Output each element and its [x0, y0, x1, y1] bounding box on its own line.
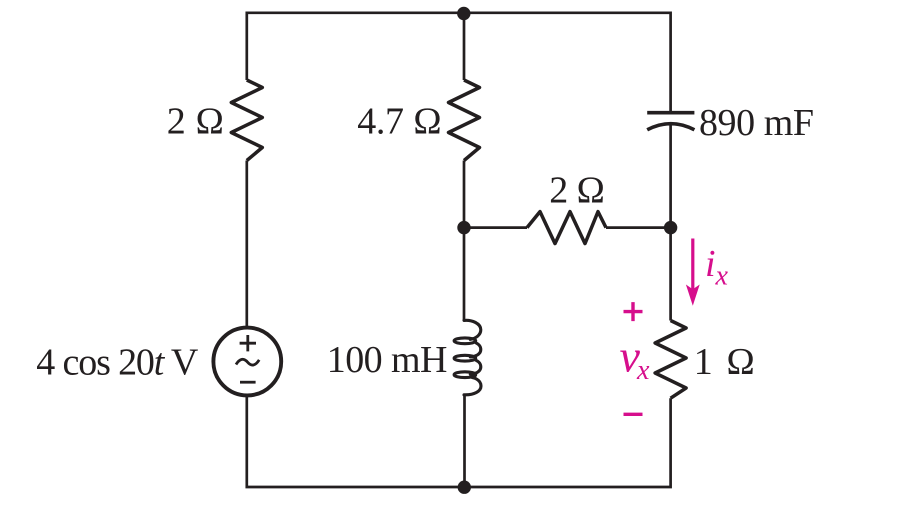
wire middle mid: [463, 161, 466, 321]
wire middle horizontal left: [464, 226, 527, 229]
wire middle upper: [463, 13, 466, 80]
svg-text:x: x: [636, 355, 650, 386]
svg-text:4.7 Ω: 4.7 Ω: [357, 101, 442, 143]
resistor R 1ohm: [655, 321, 686, 399]
wire bottom + lower corners: [247, 395, 671, 487]
node top middle: [457, 7, 470, 20]
svg-text:2 Ω: 2 Ω: [167, 101, 225, 143]
wire right mid: [669, 125, 672, 321]
source minus sign: [240, 381, 256, 384]
svg-text:2 Ω: 2 Ω: [549, 170, 605, 212]
svg-text:890 mF: 890 mF: [699, 102, 814, 144]
capacitor C 890mF: [647, 111, 694, 115]
svg-text:100 mH: 100 mH: [327, 339, 448, 381]
wire middle horizontal right: [606, 226, 671, 229]
svg-text:4 cos 20t V: 4 cos 20t V: [36, 342, 199, 384]
source sine symbol: [236, 359, 259, 365]
node middle left: [457, 221, 470, 234]
node bottom middle: [458, 481, 471, 494]
resistor R 4.7ohm: [449, 80, 480, 161]
wire middle lower: [463, 394, 466, 487]
voltage source V1 4cos20t: [213, 328, 281, 396]
svg-text:1 Ω: 1 Ω: [694, 341, 755, 383]
label minus vx: [624, 413, 643, 416]
svg-text:i: i: [705, 243, 716, 285]
wire top + upper corners: [247, 13, 671, 113]
svg-text:x: x: [715, 260, 729, 291]
resistor R 2ohm horizontal: [527, 212, 606, 244]
inductor L 100mH: [454, 320, 481, 395]
arrow ix current: [691, 239, 694, 291]
wire left middle: [245, 161, 248, 328]
node middle right: [664, 221, 677, 234]
label plus vx: [624, 302, 643, 321]
source plus sign: [240, 335, 256, 351]
resistor R 2ohm left: [231, 80, 262, 161]
